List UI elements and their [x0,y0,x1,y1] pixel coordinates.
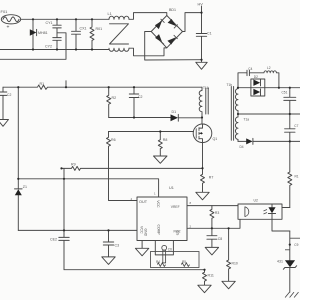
svg-text:VCC: VCC [156,200,160,208]
svg-text:C7: C7 [294,124,298,128]
svg-text:GND: GND [144,229,148,237]
svg-text:T1A: T1A [203,86,210,90]
svg-text:VCC: VCC [140,226,144,234]
svg-text:R6: R6 [111,138,116,142]
svg-text:CE2: CE2 [50,238,57,242]
svg-text:R5: R5 [182,260,186,264]
svg-text:Q1: Q1 [213,137,218,141]
svg-text:431: 431 [277,260,283,264]
svg-text:OUT: OUT [139,200,148,204]
svg-text:COMP: COMP [157,225,161,236]
svg-text:CY1: CY1 [46,21,53,25]
svg-text:D1: D1 [172,110,177,114]
svg-text:CS: CS [176,231,180,236]
svg-text:U1: U1 [169,186,174,190]
svg-text:R10: R10 [232,262,238,266]
svg-text:R7: R7 [209,176,214,180]
svg-text:C8: C8 [218,237,222,241]
svg-text:8: 8 [190,201,192,205]
svg-text:R8: R8 [163,138,168,142]
svg-text:R3: R3 [215,211,219,215]
svg-text:D4: D4 [240,145,244,149]
svg-text:CX1: CX1 [80,27,87,31]
svg-text:1: 1 [154,192,156,196]
svg-text:C3: C3 [115,244,120,248]
svg-text:C51: C51 [282,91,288,95]
svg-text:R01: R01 [96,27,103,31]
svg-text:F01: F01 [1,9,9,14]
svg-text:T1a: T1a [244,118,250,122]
svg-text:L2: L2 [267,66,271,70]
svg-text:MH81: MH81 [38,31,48,35]
svg-text:HV: HV [198,3,204,7]
svg-text:C2: C2 [7,93,11,97]
svg-text:CY2: CY2 [45,44,52,48]
svg-text:D2: D2 [254,75,258,79]
svg-text:C4: C4 [248,67,252,71]
svg-text:L1: L1 [108,12,112,16]
svg-text:R9: R9 [71,163,76,167]
svg-text:U2: U2 [254,199,258,203]
svg-text:+: + [7,25,10,31]
svg-text:R11: R11 [208,274,214,278]
svg-text:R1: R1 [40,82,45,86]
svg-text:C2: C2 [138,95,143,99]
svg-text:Z1: Z1 [23,185,27,189]
svg-text:C6: C6 [168,248,172,252]
svg-text:VREF: VREF [171,205,180,209]
svg-text:C9: C9 [294,243,298,247]
svg-text:R1: R1 [295,175,299,179]
svg-text:R4: R4 [156,260,160,264]
svg-text:BD1: BD1 [169,8,176,12]
svg-text:C1: C1 [207,32,212,36]
svg-text:R2: R2 [112,96,117,100]
